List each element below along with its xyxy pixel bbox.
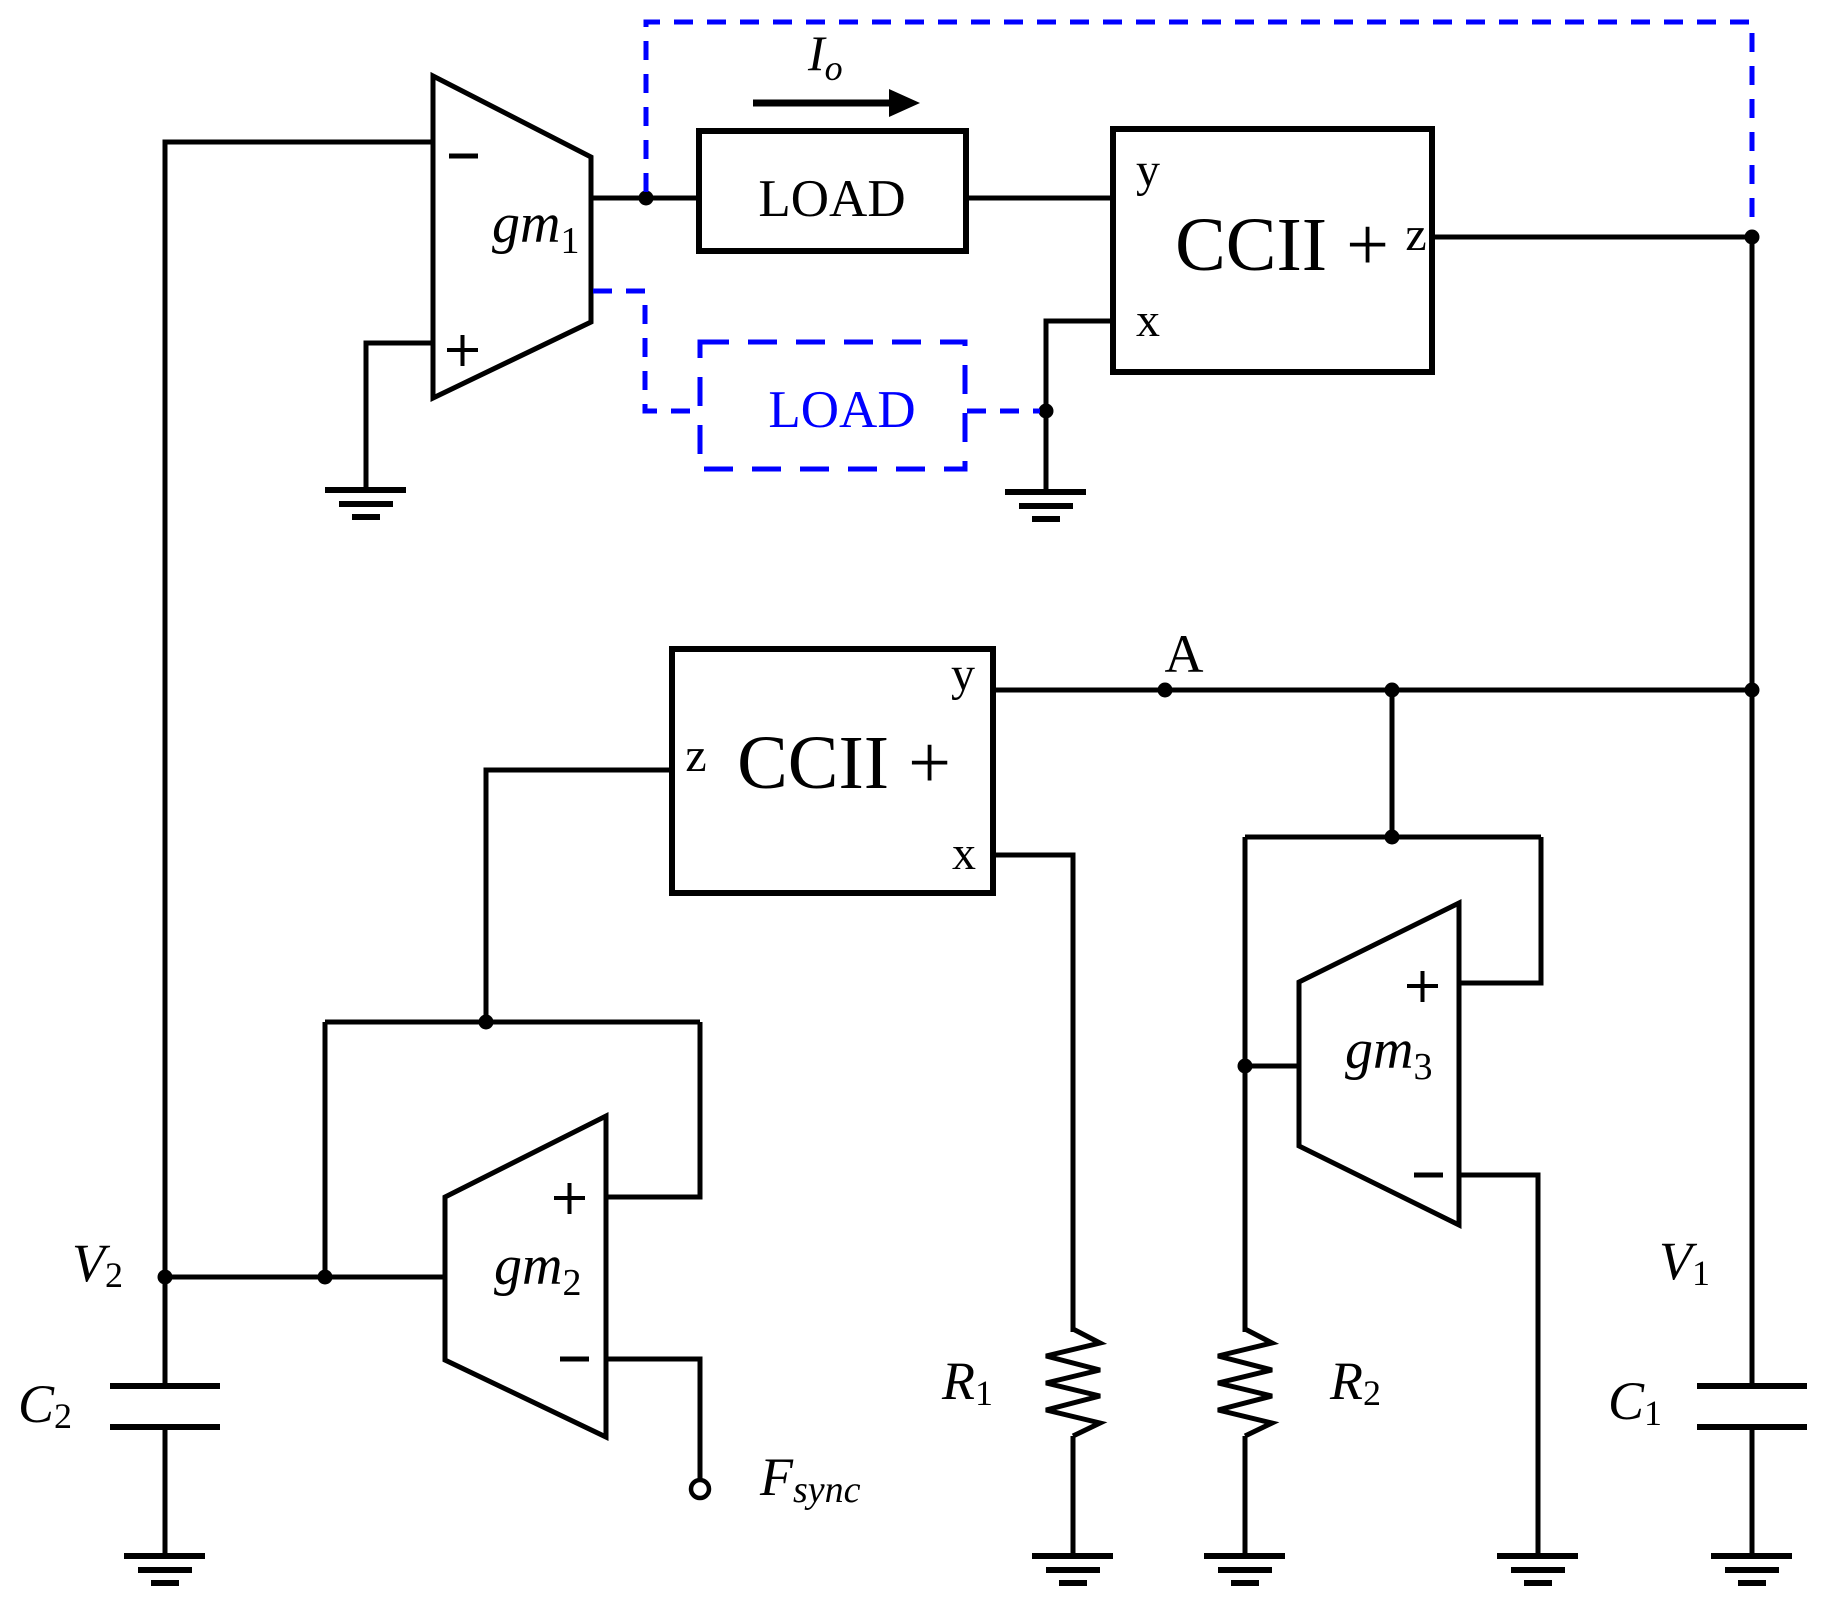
op-amp gm3 (OTA, output to left) <box>1299 903 1459 1225</box>
gm2 plus input sign <box>554 1183 585 1214</box>
gm1 plus input sign <box>447 335 478 366</box>
wire: U2 y pin / node A rail <box>993 688 1752 693</box>
node: z feedback junction <box>479 1015 494 1030</box>
svg-text:z: z <box>1405 208 1426 261</box>
svg-text:LOAD: LOAD <box>758 170 905 228</box>
wire (dashed blue): gm1 output to floating LOAD <box>593 291 697 411</box>
node: gm2 + feedback junction on V2 wire <box>318 1270 333 1285</box>
wire: U2 x pin down to R1 <box>993 855 1073 1332</box>
gm2 minus input sign <box>560 1357 589 1362</box>
node: feedback tee <box>1385 830 1400 845</box>
gm1 minus input sign <box>449 154 478 159</box>
wire: gm3 - input to ground <box>1459 1175 1538 1556</box>
svg-text:A: A <box>1165 624 1204 684</box>
wire: right branch down to gm2 + input <box>606 1022 700 1197</box>
capacitor C1 <box>1697 1386 1807 1427</box>
wire: C1 to ground <box>1750 1427 1755 1556</box>
svg-text:y: y <box>951 648 975 701</box>
wire: gm2 - input to Fsync terminal <box>606 1359 700 1479</box>
ground (CCII1 x node) <box>1005 492 1086 519</box>
wire: right vertical rail (z to node A to C1) <box>1750 237 1755 1386</box>
resistor R2 <box>1218 1329 1272 1436</box>
op-amp gm2 (OTA, output to left) <box>445 1116 606 1437</box>
wire: gm1 output to LOAD <box>591 196 699 201</box>
LOAD box (grounded load) <box>699 131 966 251</box>
wire: left branch down to gm3 output and R2 <box>1243 837 1248 1332</box>
svg-text:x: x <box>952 827 976 880</box>
svg-text:CCII +: CCII + <box>737 721 951 805</box>
svg-text:y: y <box>1136 144 1160 197</box>
wire: node A down to gm3 feedback tee <box>1390 690 1395 837</box>
wire: C2 to ground <box>163 1427 168 1556</box>
ground (C2) <box>124 1556 205 1583</box>
gm3 plus input sign <box>1407 971 1438 1002</box>
resistor R1 <box>1046 1329 1100 1436</box>
CCII U1 box <box>1113 129 1432 372</box>
wire: LOAD to CCII1 y <box>966 196 1113 201</box>
node: z junction with feedback rail <box>1745 230 1760 245</box>
terminal Fsync (open circle) <box>691 1480 709 1498</box>
CCII U2 box <box>672 649 993 893</box>
ground (gm1 + input) <box>325 490 406 517</box>
wire: CCII1 x pin to grounded node <box>1046 321 1113 490</box>
wire: gm1 + input to ground <box>366 343 433 490</box>
wire: U2 z output to gm2 feedback <box>486 770 672 1022</box>
wire: gm1 inverting input from node V2 vertical rail <box>165 142 433 1386</box>
wire: CCII1 z output <box>1432 235 1752 240</box>
wire (dashed blue): floating LOAD to x node <box>967 409 1040 414</box>
node: x / dashed load junction <box>1039 404 1054 419</box>
wire: gm3 output stub <box>1245 1064 1299 1069</box>
LOAD box (dashed blue, floating load) <box>700 342 965 469</box>
wire: gm2 feedback top horizontal <box>325 1020 700 1025</box>
wire (dashed blue): alternative feedback loop from gm1 output to z <box>646 22 1752 229</box>
op-amp gm1 (OTA, output to right) <box>433 76 591 398</box>
node: gm3 branch on A rail <box>1385 683 1400 698</box>
node A dot <box>1158 683 1173 698</box>
wire: gm2 + feedback vertical <box>323 1022 328 1277</box>
svg-text:LOAD: LOAD <box>768 381 915 439</box>
wire: gm3 feedback horizontal <box>1245 835 1541 840</box>
node: gm3 output junction <box>1238 1059 1253 1074</box>
gm3 minus input sign <box>1414 1173 1443 1178</box>
node V2 <box>158 1270 173 1285</box>
ground (gm3 - input) <box>1497 1556 1578 1583</box>
svg-text:z: z <box>685 729 706 782</box>
ground (C1) <box>1711 1556 1792 1583</box>
ground (R2) <box>1204 1556 1285 1583</box>
wire: R2 to ground <box>1243 1436 1248 1556</box>
wire: V2 node to gm2 output <box>165 1275 445 1280</box>
node: A on right rail <box>1745 683 1760 698</box>
Io current arrow <box>753 100 891 107</box>
node: gm1 output junction <box>639 191 654 206</box>
wire: R1 to ground <box>1071 1436 1076 1556</box>
svg-text:CCII +: CCII + <box>1175 203 1389 287</box>
wire: right branch down to gm3 + input <box>1459 837 1541 983</box>
svg-text:x: x <box>1136 294 1160 347</box>
capacitor C2 <box>110 1386 220 1427</box>
ground (R1) <box>1032 1556 1113 1583</box>
